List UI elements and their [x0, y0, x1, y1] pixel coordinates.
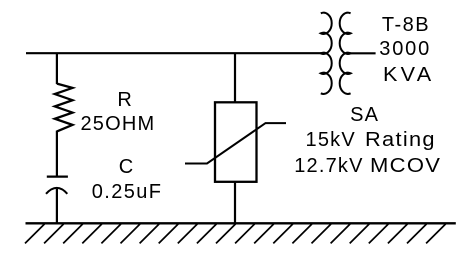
- ground hatching: [25, 224, 446, 243]
- label C: [119, 157, 133, 177]
- wire arrester branch drop: [234, 53, 236, 102]
- wire resistor to capacitor: [56, 131, 58, 177]
- label T-8B: [382, 15, 430, 35]
- transformer T-8B secondary winding: [340, 13, 351, 94]
- label 3000: [379, 39, 431, 59]
- wire left branch drop: [56, 53, 58, 84]
- label R: [117, 90, 131, 110]
- wire capacitor to ground: [56, 189, 58, 224]
- capacitor C curved plate: [46, 188, 67, 194]
- wire arrester to ground: [234, 182, 236, 224]
- label SA: [350, 105, 379, 125]
- transformer T-8B primary winding: [321, 13, 332, 94]
- capacitor C top plate: [47, 175, 68, 177]
- label KVA: [383, 65, 434, 85]
- label 12.7kV MCOV: [294, 156, 435, 176]
- wire top bus: [26, 52, 322, 54]
- label 0.25uF: [92, 182, 163, 202]
- surge arrester SA body: [215, 102, 257, 182]
- surge arrester SA diagonal lead: [185, 123, 286, 163]
- wire secondary lead: [349, 52, 376, 54]
- ground plane line: [26, 222, 456, 224]
- resistor R: [55, 84, 73, 132]
- label 15kV Rating: [306, 130, 430, 150]
- label 25OHM: [80, 114, 155, 134]
